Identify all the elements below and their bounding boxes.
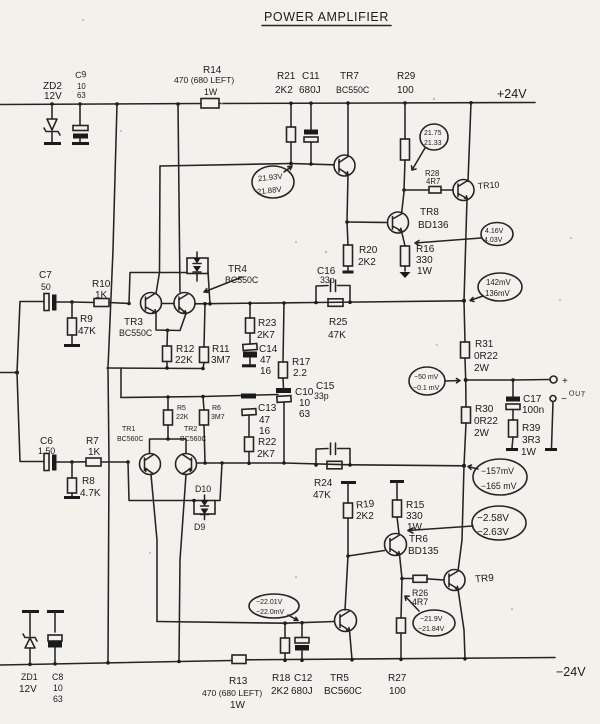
wire input down branch <box>17 373 43 462</box>
terminal bar above R15 <box>390 480 404 483</box>
transistor TR8 <box>388 207 450 233</box>
arrow bubble to R27 top <box>405 596 419 611</box>
wire vertical rail to TR4 <box>178 104 180 292</box>
node rail-ZD2 <box>50 102 54 106</box>
svg-text:D9: D9 <box>194 522 205 532</box>
wire TR8 base from node <box>347 221 388 224</box>
svg-text:−50 mV: −50 mV <box>414 374 439 381</box>
arrow bubble to R21 node <box>284 166 292 172</box>
svg-text:R24: R24 <box>314 478 333 489</box>
svg-text:21.33: 21.33 <box>424 140 442 147</box>
wire TR5 collector up to R19 node <box>345 556 348 610</box>
resistor R31 <box>461 301 499 380</box>
svg-text:TR1: TR1 <box>122 426 135 433</box>
svg-text:47K: 47K <box>328 330 346 341</box>
zener ZD2 <box>43 81 62 142</box>
wire y368 line <box>107 367 203 370</box>
node input split <box>15 371 19 375</box>
node C11-bottom <box>309 162 313 166</box>
node R6 bottom <box>203 461 207 465</box>
terminal bar above ZD1 <box>22 610 39 613</box>
node C6-R8 <box>70 460 74 464</box>
resistor R18 <box>271 623 291 697</box>
wire TR9 emitter up to output column <box>458 466 464 571</box>
arrow bubble to output node <box>445 379 460 383</box>
bubble -21.9V/-21.84V <box>413 610 455 636</box>
transistor TR7 <box>334 71 370 176</box>
svg-text:R21: R21 <box>277 71 296 82</box>
svg-text:OUT: OUT <box>569 388 587 398</box>
svg-text:TR6: TR6 <box>409 534 428 545</box>
resistor R12 <box>163 330 195 368</box>
svg-text:10: 10 <box>299 398 311 409</box>
bubble 142mV/136mV <box>478 273 522 301</box>
node TR7e-R20-TR8b <box>345 220 349 224</box>
wire TR1 base to diode box D9 D10 <box>128 462 194 501</box>
svg-text:470 (680 LEFT): 470 (680 LEFT) <box>174 75 234 85</box>
svg-text:2K2: 2K2 <box>271 686 289 697</box>
svg-text:47K: 47K <box>313 490 331 501</box>
svg-text:C12: C12 <box>294 673 313 684</box>
svg-text:47K: 47K <box>78 326 96 337</box>
wire -24V rail right part <box>246 658 555 660</box>
svg-text:4R7: 4R7 <box>426 177 440 186</box>
svg-text:100: 100 <box>397 85 414 96</box>
node rail TR5 <box>350 658 354 662</box>
svg-text:2K2: 2K2 <box>358 257 376 268</box>
wire TR5 emitter down to rail <box>350 631 353 660</box>
node rail TR9 <box>463 657 467 661</box>
wire TR7 emitter down <box>347 175 348 223</box>
svg-text:63: 63 <box>77 91 86 100</box>
svg-text:−24V: −24V <box>556 665 586 679</box>
arrow bubble to R29 node <box>412 148 426 170</box>
resistor R39 <box>509 420 541 458</box>
svg-text:−157mV: −157mV <box>481 466 514 476</box>
transistor TR9 <box>444 570 495 591</box>
svg-text:R39: R39 <box>522 423 541 434</box>
wire TR1 collector down to lower line <box>151 475 157 622</box>
node rail-TR10 <box>469 101 473 105</box>
svg-text:R22: R22 <box>258 437 277 448</box>
svg-text:BC550C: BC550C <box>119 328 153 338</box>
svg-text:142mV: 142mV <box>486 278 512 287</box>
terminal bar above C8 <box>47 610 64 613</box>
svg-text:12V: 12V <box>19 684 37 695</box>
wire TR3 TR4 emitters join <box>156 313 186 331</box>
node rail-TR7 <box>346 101 350 105</box>
diode pair box above TR4 <box>187 252 208 281</box>
wire TR1 TR2 emitter bracket <box>150 439 187 454</box>
node rail-C9 <box>78 102 82 106</box>
resistor R29 <box>397 71 416 190</box>
node R23 top <box>248 302 252 306</box>
terminal bar below R39 <box>506 448 518 451</box>
svg-text:POWER AMPLIFIER: POWER AMPLIFIER <box>264 10 389 24</box>
wire output to terminals <box>466 379 550 382</box>
svg-text:330: 330 <box>416 255 433 266</box>
resistor R14 <box>174 65 234 108</box>
resistor R5 <box>164 397 189 439</box>
terminal bar below R16 <box>400 272 411 278</box>
svg-text:−22.0mV: −22.0mV <box>256 609 285 616</box>
resistor R19 <box>344 483 376 557</box>
arrow bubble to feedback junction <box>468 465 478 469</box>
arrow bubble to TR6 R15 node <box>408 526 473 533</box>
capacitor C13 <box>241 394 277 438</box>
wire stub down to y397 line <box>120 368 122 398</box>
svg-text:21.75: 21.75 <box>424 130 442 137</box>
bubble -22.01V/-22.0mV <box>249 594 299 618</box>
wire TR2 base feedback line y463 <box>197 463 465 466</box>
svg-text:1.50: 1.50 <box>38 446 55 456</box>
node R11 bottom <box>201 367 205 371</box>
wire diode box right up to feedback line <box>215 463 222 501</box>
node rail C8 <box>53 662 57 666</box>
svg-text:D10: D10 <box>195 484 211 494</box>
node C16 right <box>348 300 352 304</box>
svg-text:BC560C: BC560C <box>324 686 362 697</box>
svg-text:1K: 1K <box>88 447 101 458</box>
svg-text:0R22: 0R22 <box>474 351 498 362</box>
svg-text:R19: R19 <box>355 498 375 511</box>
svg-text:2K7: 2K7 <box>257 330 275 341</box>
svg-text:−2.58V: −2.58V <box>477 513 509 524</box>
wire +24V rail <box>0 104 201 105</box>
wire TR8 collector up <box>402 192 405 214</box>
resistor R22 <box>245 437 277 464</box>
capacitor C8 <box>48 612 63 705</box>
resistor R15 <box>393 482 425 534</box>
arrow bubble to lower line <box>288 615 298 621</box>
svg-text:R7: R7 <box>86 436 99 447</box>
svg-text:C11: C11 <box>302 71 320 82</box>
wire TR9 collector down to rail <box>458 589 465 658</box>
svg-text:R23: R23 <box>258 318 277 329</box>
node R29-R28 <box>402 188 406 192</box>
svg-text:C7: C7 <box>39 270 52 281</box>
terminal bar minus <box>545 448 557 451</box>
zener ZD1 <box>19 612 38 696</box>
resistor R26 <box>402 575 444 607</box>
svg-text:470 (680 LEFT): 470 (680 LEFT) <box>202 688 262 698</box>
capacitor C7 <box>39 270 72 311</box>
svg-text:+24V: +24V <box>497 87 527 101</box>
node rail R18 <box>283 659 287 663</box>
wire input stub <box>0 372 17 374</box>
node R22 bottom <box>247 462 251 466</box>
svg-text:2K2: 2K2 <box>356 511 374 522</box>
svg-text:R11: R11 <box>212 344 230 355</box>
svg-text:TR2: TR2 <box>184 426 197 433</box>
node lower line C12 <box>300 621 304 625</box>
svg-text:63: 63 <box>299 409 311 420</box>
svg-text:−21.84V: −21.84V <box>418 626 445 633</box>
svg-text:R18: R18 <box>272 673 291 684</box>
wire TR8 emitter down <box>402 231 406 246</box>
svg-text:C9: C9 <box>74 69 87 80</box>
svg-text:R15: R15 <box>406 500 425 511</box>
svg-text:BC560C: BC560C <box>117 436 143 443</box>
svg-text:R10: R10 <box>92 279 111 290</box>
node rail R27 <box>399 658 403 662</box>
wire TR3 base up to diode line <box>129 273 187 304</box>
svg-text:R17: R17 <box>292 357 311 368</box>
bubble 4.16V/4.03V <box>481 223 513 246</box>
svg-text:TR3: TR3 <box>124 317 143 328</box>
capacitor C17 <box>506 380 544 420</box>
node diode box right top <box>220 461 224 465</box>
svg-text:136mV: 136mV <box>485 289 511 298</box>
transistor TR6 <box>385 534 440 558</box>
svg-text:63: 63 <box>53 694 63 704</box>
resistor R10 <box>72 279 129 307</box>
arrow TR4 label pointer <box>204 277 242 292</box>
svg-text:−22.01V: −22.01V <box>256 599 283 606</box>
terminal bar above R19 <box>341 481 356 484</box>
terminal OUT minus <box>550 394 567 405</box>
capacitor C6 <box>38 436 72 471</box>
wire +24V rail right part <box>219 103 535 104</box>
wire TR3 TR4 base link <box>162 303 175 305</box>
svg-text:R9: R9 <box>80 314 93 325</box>
svg-text:1W: 1W <box>521 447 537 458</box>
svg-text:10: 10 <box>53 683 63 693</box>
transistor TR10 <box>453 180 500 201</box>
bubble 21.75/21.33 <box>420 124 448 150</box>
transistor TR1 <box>117 426 161 475</box>
resistor R28 <box>404 169 453 193</box>
svg-text:R8: R8 <box>82 476 95 487</box>
wire TR7 collector up <box>347 103 349 156</box>
terminal OUT plus <box>550 376 586 399</box>
svg-text:3M7: 3M7 <box>211 355 231 366</box>
node feedback line junction <box>462 464 466 468</box>
node C15 right <box>348 463 352 467</box>
svg-text:2W: 2W <box>474 363 490 374</box>
svg-text:100: 100 <box>389 686 406 697</box>
node R5 top <box>166 395 170 399</box>
transistor TR4 <box>174 264 259 314</box>
svg-text:TR5: TR5 <box>330 673 349 684</box>
svg-text:BD136: BD136 <box>418 220 449 231</box>
arrow bubble to R16 <box>415 238 481 246</box>
wire TR6 emitter down <box>400 555 403 579</box>
resistor R6 <box>200 397 225 463</box>
node R19 bottom <box>346 554 350 558</box>
svg-text:47: 47 <box>259 415 271 426</box>
ground below R9 <box>64 344 80 347</box>
svg-text:−2.63V: −2.63V <box>477 527 509 538</box>
svg-text:3M7: 3M7 <box>211 414 225 421</box>
node C7-R9 <box>70 300 74 304</box>
node rail-x117 <box>115 102 119 106</box>
svg-text:+: + <box>562 376 568 387</box>
svg-text:1W: 1W <box>407 522 423 533</box>
resistor R23 <box>246 303 277 344</box>
terminal bar below R20 <box>343 271 354 274</box>
svg-text:10: 10 <box>77 82 86 91</box>
node rail ZD1 <box>28 663 32 667</box>
svg-text:R12: R12 <box>176 344 195 355</box>
node rail TR2col <box>177 660 181 664</box>
svg-text:1W: 1W <box>230 700 246 711</box>
node rail C12 <box>300 658 304 662</box>
svg-text:2K7: 2K7 <box>257 449 275 460</box>
svg-text:R30: R30 <box>475 404 494 415</box>
svg-text:3R3: 3R3 <box>522 435 541 446</box>
node TR6-R26-R27 <box>400 577 404 581</box>
resistor R11 <box>200 304 231 369</box>
diode box D10 D9 <box>194 484 215 532</box>
svg-text:TR10: TR10 <box>477 180 499 191</box>
node rail x108 <box>106 661 110 665</box>
svg-text:−21.9V: −21.9V <box>420 616 443 623</box>
resistor R21 <box>275 71 296 164</box>
svg-text:−165 mV: −165 mV <box>481 481 517 491</box>
svg-text:2W: 2W <box>474 428 490 439</box>
capacitor C9 <box>73 69 88 142</box>
node C10 bottom <box>282 461 286 465</box>
node emitter join <box>166 329 170 333</box>
svg-text:33p: 33p <box>314 391 329 401</box>
svg-text:−: − <box>561 394 567 405</box>
svg-text:ZD1: ZD1 <box>21 672 38 682</box>
svg-text:16: 16 <box>259 426 271 437</box>
node C17 top <box>511 378 515 382</box>
svg-text:47: 47 <box>260 355 272 366</box>
capacitor C16 loop <box>316 266 350 303</box>
svg-text:2.2: 2.2 <box>293 368 307 379</box>
resistor R8 <box>68 462 101 499</box>
svg-text:C13: C13 <box>258 403 277 414</box>
svg-text:4.16V: 4.16V <box>485 228 504 235</box>
node mid line output junction <box>462 299 466 303</box>
resistor R13 <box>202 655 262 711</box>
svg-text:TR7: TR7 <box>340 71 359 82</box>
svg-text:50: 50 <box>41 282 51 292</box>
node output <box>464 378 468 382</box>
capacitor C12 <box>291 623 313 697</box>
node R11 top <box>203 302 207 306</box>
svg-text:C10: C10 <box>295 387 314 398</box>
node C15 left <box>314 463 318 467</box>
wire TR6 base from R19 <box>348 551 385 557</box>
svg-text:330: 330 <box>406 511 423 522</box>
wire TR10 collector to rail <box>468 103 471 182</box>
wire TR3 collector up crossing to y165 <box>156 166 160 294</box>
svg-text:0R22: 0R22 <box>474 416 498 427</box>
transistor TR5 <box>324 610 362 698</box>
svg-text:BD135: BD135 <box>408 546 439 557</box>
svg-text:R5: R5 <box>177 405 186 412</box>
node C16 left <box>314 301 318 305</box>
svg-text:R31: R31 <box>475 339 494 350</box>
svg-text:−0.1 mV: −0.1 mV <box>413 385 440 392</box>
resistor R16 <box>401 244 435 277</box>
node R21-bottom <box>289 162 293 166</box>
wire minus terminal down <box>552 402 554 449</box>
title POWER AMPLIFIER <box>262 10 391 26</box>
svg-text:1W: 1W <box>417 266 433 277</box>
wire TR2 collector down to bottom rail <box>179 475 186 662</box>
svg-text:BC550C: BC550C <box>336 85 370 95</box>
node diode-box drop <box>208 302 212 306</box>
resistor R24 <box>313 461 342 501</box>
svg-text:680J: 680J <box>299 85 321 96</box>
node rail-x178 <box>176 102 180 106</box>
wire input up branch <box>17 302 43 373</box>
svg-text:R13: R13 <box>229 676 248 687</box>
svg-text:R27: R27 <box>388 673 407 684</box>
node TR3 base <box>127 302 131 306</box>
svg-text:R6: R6 <box>212 405 221 412</box>
wire lower line y622 to TR5 base <box>157 622 335 624</box>
svg-text:R29: R29 <box>397 71 416 82</box>
terminal bar below C14 <box>242 364 256 367</box>
capacitor C10 <box>276 387 314 463</box>
node bracket center <box>166 437 170 441</box>
node R17 top <box>282 301 286 305</box>
capacitor C11 <box>299 71 321 164</box>
resistor R30 <box>462 380 499 466</box>
resistor R27 <box>388 579 407 698</box>
svg-text:C8: C8 <box>52 672 63 682</box>
node TR1 base <box>126 460 130 464</box>
transistor TR3 <box>119 293 162 339</box>
svg-text:16: 16 <box>260 366 272 377</box>
svg-text:TR4: TR4 <box>228 264 247 275</box>
arrow bubble to mid junction <box>470 296 483 302</box>
ground below R8 <box>64 496 80 499</box>
svg-text:1K: 1K <box>95 290 108 301</box>
svg-text:680J: 680J <box>291 686 313 697</box>
transistor TR2 <box>176 426 207 475</box>
svg-text:TR8: TR8 <box>420 207 439 218</box>
svg-text:TR9: TR9 <box>474 573 494 586</box>
wire mid feedback line y302 <box>195 301 464 304</box>
wire TR10 emitter down to output column <box>464 199 467 301</box>
node R6 top <box>201 395 205 399</box>
svg-text:R20: R20 <box>359 245 378 256</box>
bubble -157mV/-165mV <box>473 459 527 495</box>
wire -24V rail left part <box>0 661 232 666</box>
svg-text:22K: 22K <box>176 414 189 421</box>
node R12 bottom <box>165 366 169 370</box>
node rail-R29 <box>403 101 407 105</box>
capacitor C14 <box>243 344 278 377</box>
bubble 21.93V/21.88V <box>252 166 294 198</box>
svg-text:33p: 33p <box>320 275 335 285</box>
node rail-C11 <box>309 101 313 105</box>
node diode box left <box>192 499 196 503</box>
ground below C9 <box>72 142 89 145</box>
svg-text:C14: C14 <box>259 344 278 355</box>
capacitor C15 loop <box>314 381 350 465</box>
svg-text:12V: 12V <box>44 91 62 102</box>
svg-text:C17: C17 <box>523 394 542 405</box>
resistor R25 <box>328 299 348 341</box>
wire TR7 base line y165 <box>160 164 334 167</box>
wire y397 line <box>121 395 278 398</box>
ground below ZD2 <box>44 142 61 145</box>
svg-text:1W: 1W <box>204 87 218 97</box>
node rail-R21 <box>289 102 293 106</box>
resistor R7 <box>72 436 128 466</box>
resistor R17 <box>279 303 311 388</box>
wire diode box right down to mid line <box>208 272 210 304</box>
wire long vertical left column <box>108 104 117 662</box>
